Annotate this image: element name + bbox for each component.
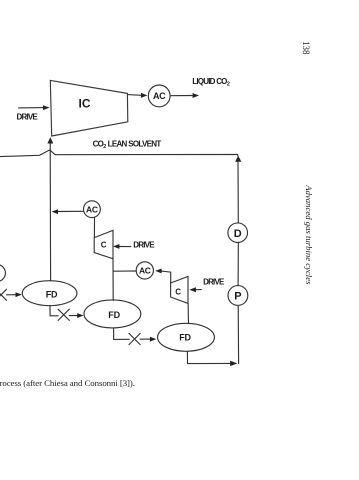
wire drive shaft into C2 (195, 289, 201, 291)
svg-text:FD: FD (108, 310, 120, 320)
wire C2 outlet to AC3 (161, 271, 171, 283)
wire FD1 vapour riser to IC inlet (49, 143, 51, 281)
wire riser above D with arrow into solvent header (237, 161, 239, 223)
wire AC3 outlet to junction (113, 270, 136, 272)
valve V1 (58, 309, 69, 320)
svg-text:AC: AC (153, 91, 166, 101)
valve V2 (129, 333, 140, 344)
compressor IC (50, 80, 128, 136)
aftercooler AC2 (84, 201, 101, 218)
svg-text:DRIVE: DRIVE (17, 112, 39, 121)
wire valve V1 to FD2 (69, 315, 78, 317)
device D (228, 223, 248, 243)
svg-text:AC: AC (86, 204, 98, 214)
wire drive shaft into C1 (119, 246, 131, 248)
svg-text:C: C (175, 287, 181, 296)
svg-text:FD: FD (179, 333, 191, 343)
aftercooler AC1 (148, 85, 170, 107)
flash drum FD1 (22, 281, 77, 306)
flash drum FD3 (158, 323, 215, 351)
wire AC2 outlet into riser (57, 210, 83, 212)
svg-text:FD: FD (46, 290, 58, 300)
compressor C2 (171, 277, 188, 304)
svg-text:LIQUIDCO2: LIQUIDCO2 (192, 77, 230, 88)
svg-text:DRIVE: DRIVE (133, 241, 155, 250)
wire C1 inlet from FD2 vapour (112, 259, 114, 301)
cooler at left page edge (cut off) (0, 264, 5, 281)
wire FD3 drain to solvent return riser (187, 351, 231, 363)
svg-text:P: P (234, 291, 241, 303)
svg-text:IC: IC (79, 96, 91, 110)
wire valve V2 to FD3 (140, 338, 150, 340)
wire CO2 lean solvent header with crossover hop (0, 150, 238, 157)
svg-text:DRIVE: DRIVE (203, 277, 225, 286)
svg-text:Advanced gas turbine cycles: Advanced gas turbine cycles (304, 184, 314, 285)
svg-text:138: 138 (301, 41, 311, 55)
wire FD1 drain to valve V1 (50, 306, 58, 316)
valve at left feed (cut off) (0, 289, 7, 300)
wire FD2 drain to valve V2 (114, 328, 130, 340)
svg-text:AC: AC (139, 266, 151, 276)
compressor C1 (94, 230, 113, 258)
wire IC outlet to AC1 (128, 94, 142, 97)
wire solvent return riser lower segment (237, 306, 239, 364)
svg-text:rocess (after Chiesa and Conso: rocess (after Chiesa and Consonni [3]). (0, 378, 135, 388)
pump P (228, 286, 248, 306)
wire riser between P and D (237, 243, 239, 286)
wire C2 inlet from FD3 vapour (187, 303, 189, 323)
svg-text:D: D (234, 228, 242, 240)
svg-text:C: C (101, 240, 107, 249)
wire feed into FD1 (7, 294, 17, 296)
wire AC1 to liquid CO2 product (170, 95, 193, 97)
aftercooler AC3 (136, 262, 153, 279)
flash drum FD2 (84, 300, 141, 328)
wire AC2 to C1 outlet (93, 217, 95, 237)
wire drive shaft into IC (19, 107, 45, 109)
